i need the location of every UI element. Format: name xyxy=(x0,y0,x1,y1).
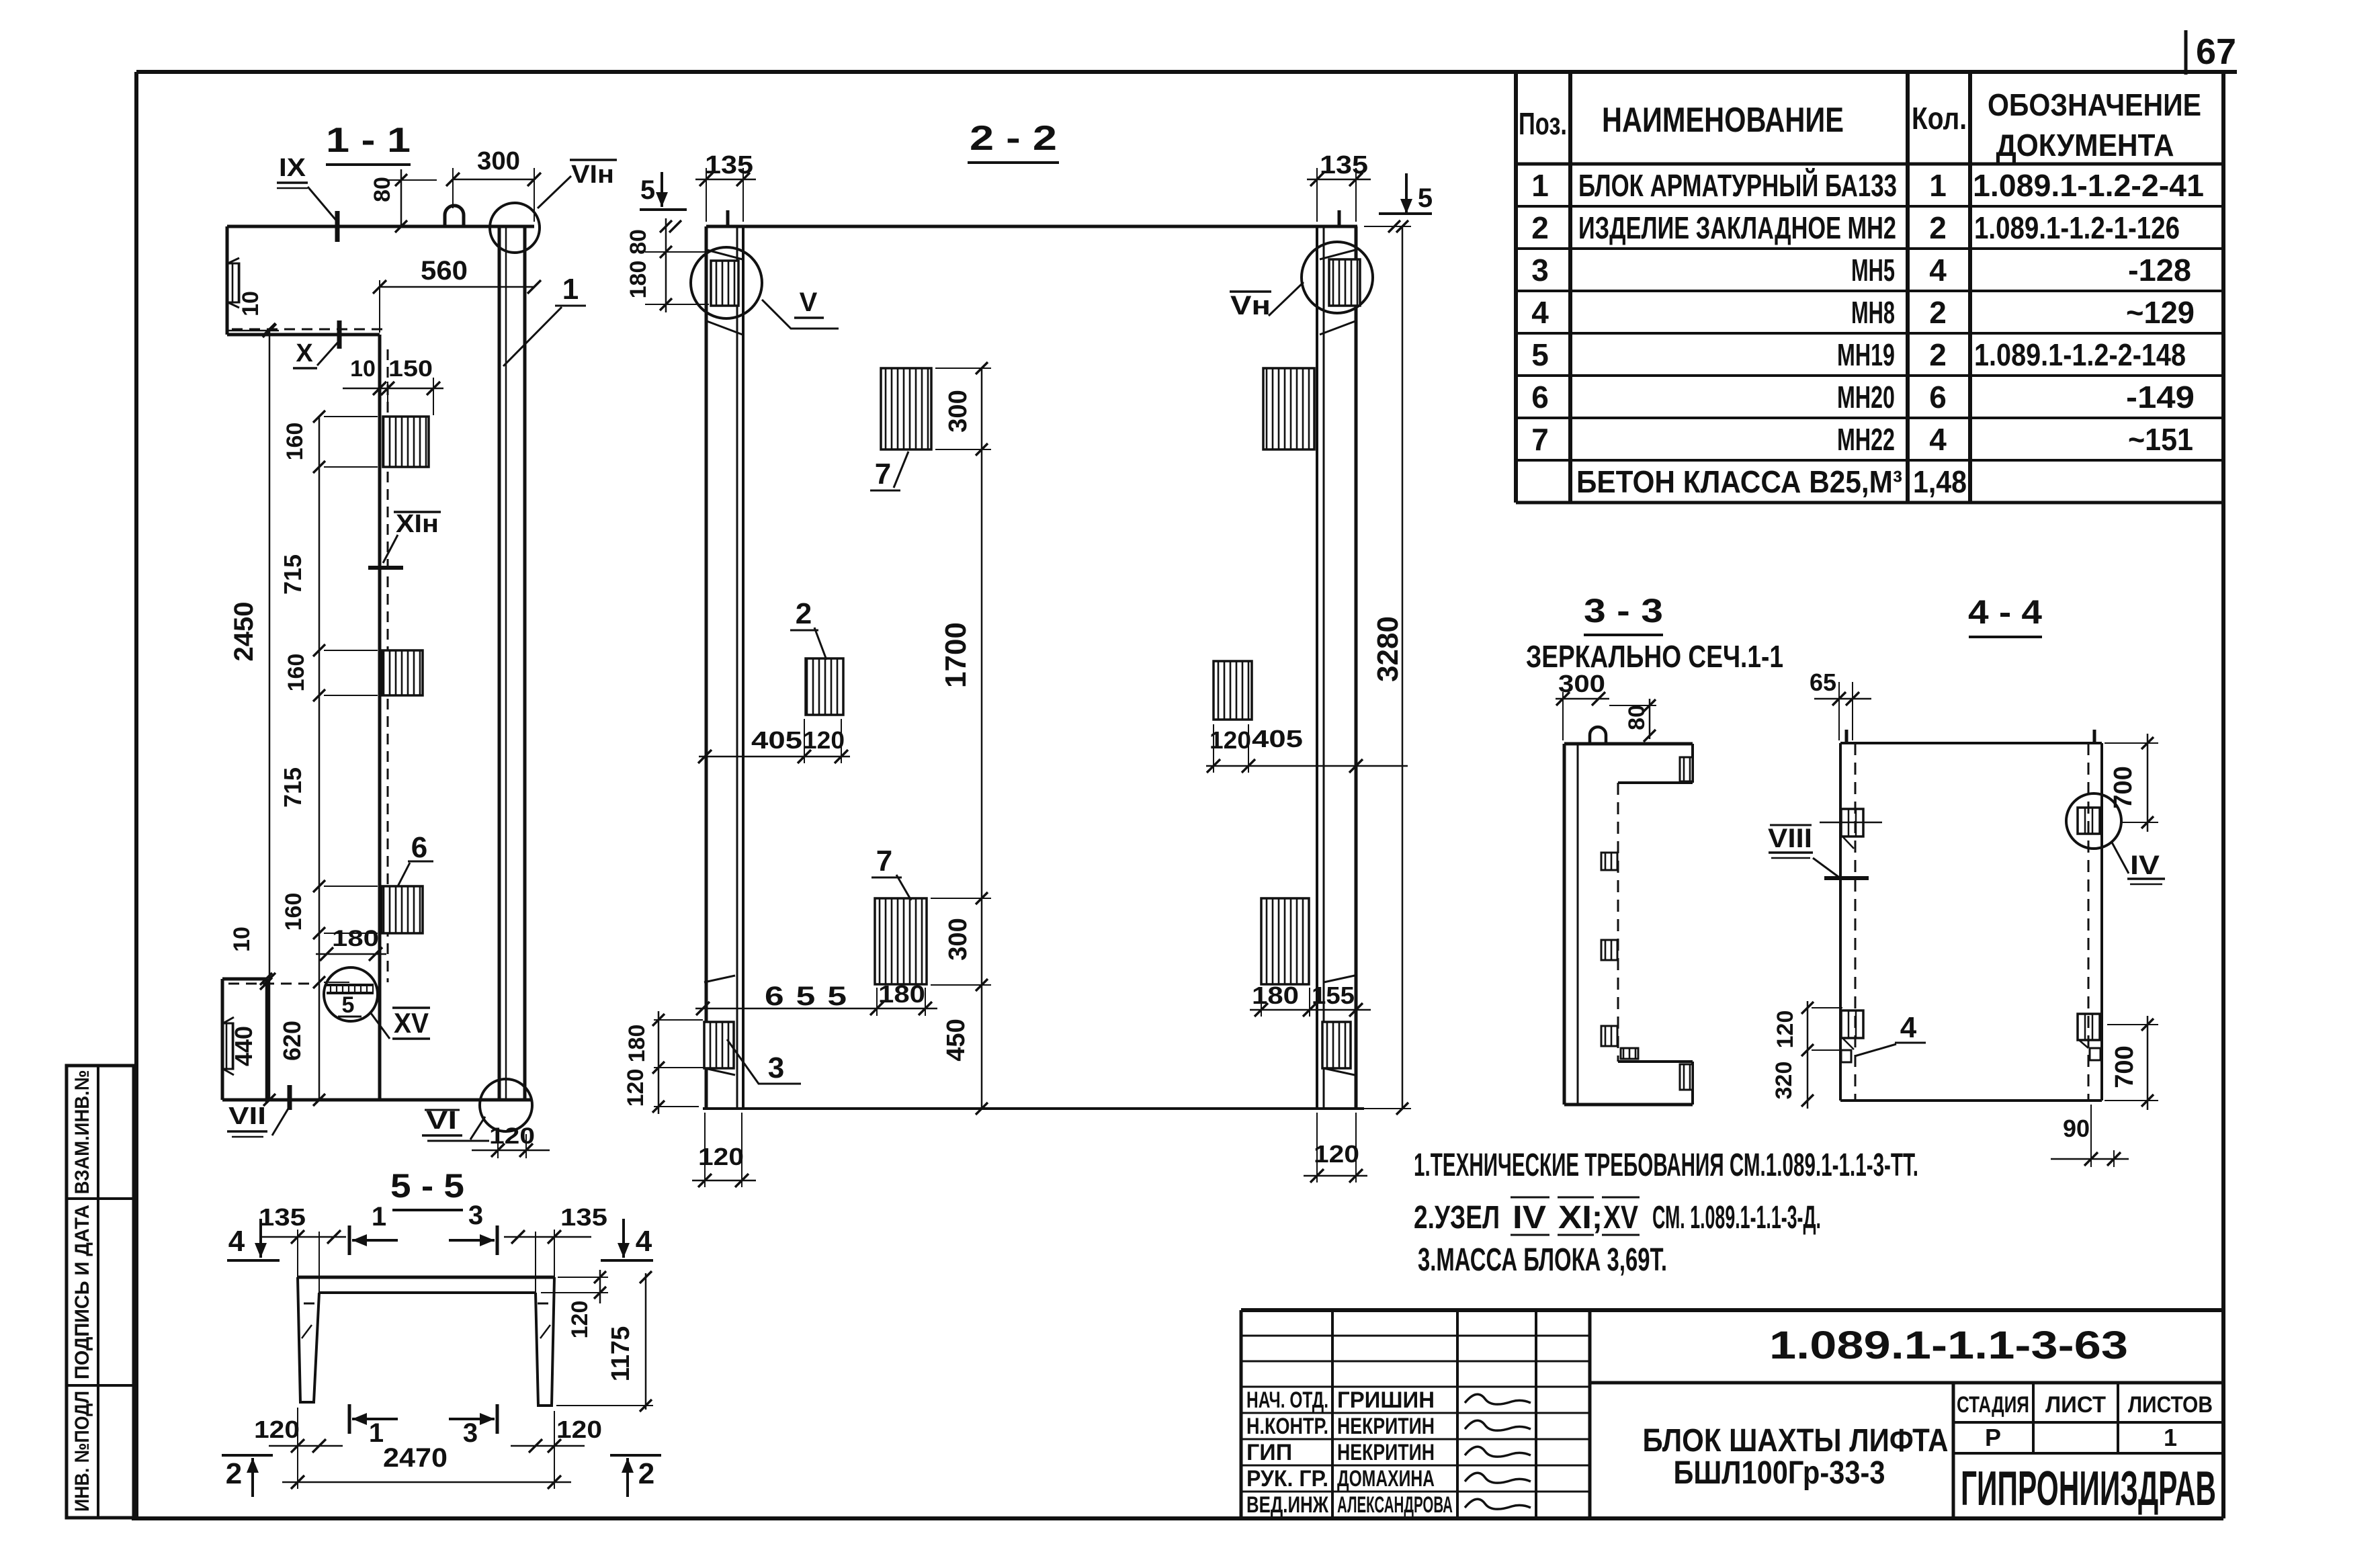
svg-text:4: 4 xyxy=(1929,253,1947,288)
2-2 left wall bottom plate (item 3) xyxy=(704,1022,734,1068)
svg-text:МН8: МН8 xyxy=(1851,295,1895,330)
svg-text:700: 700 xyxy=(2111,1045,2139,1088)
svg-text:БШЛ100Гр-33-3: БШЛ100Гр-33-3 xyxy=(1674,1455,1885,1491)
svg-text:300: 300 xyxy=(944,390,972,432)
svg-text:1.ТЕХНИЧЕСКИЕ ТРЕБОВАНИЯ СМ.1.: 1.ТЕХНИЧЕСКИЕ ТРЕБОВАНИЯ СМ.1.089.1-1.1-… xyxy=(1414,1148,1918,1183)
svg-text:135: 135 xyxy=(259,1203,306,1231)
svg-text:1,48: 1,48 xyxy=(1913,464,1967,499)
svg-text:1: 1 xyxy=(1929,168,1947,203)
4-4 top stubs xyxy=(1845,730,1848,743)
svg-text:1 - 1: 1 - 1 xyxy=(326,121,411,160)
svg-text:3280: 3280 xyxy=(1371,616,1404,682)
1-1 dashed step bottom xyxy=(228,983,316,985)
svg-text:НЕКРИТИН: НЕКРИТИН xyxy=(1337,1440,1435,1465)
svg-text:2450: 2450 xyxy=(229,602,259,662)
svg-text:6: 6 xyxy=(1929,380,1947,415)
page number 67 xyxy=(2184,30,2188,75)
svg-text:~129: ~129 xyxy=(2126,295,2195,330)
svg-text:МН22: МН22 xyxy=(1837,422,1895,457)
1-1 dim 440 xyxy=(265,979,267,1103)
1-1 web wall xyxy=(378,335,382,1100)
svg-text:1175: 1175 xyxy=(607,1326,635,1381)
1-1 embedded plate bottom-left xyxy=(223,1023,233,1069)
1-1 top slab line xyxy=(227,225,534,228)
svg-text:ПОДПИСЬ И ДАТА: ПОДПИСЬ И ДАТА xyxy=(71,1205,93,1379)
3-3 lifting loop xyxy=(1590,727,1606,744)
svg-text:715: 715 xyxy=(279,554,306,595)
svg-text:VIн: VIн xyxy=(571,161,614,189)
svg-text:120: 120 xyxy=(803,726,845,754)
svg-text:1: 1 xyxy=(369,1418,384,1448)
1-1 VI detail circle xyxy=(480,1079,532,1131)
4-4 dashed lines xyxy=(1855,743,1857,1101)
svg-text:67: 67 xyxy=(2196,32,2236,72)
2-2 hatch block 7 lower left xyxy=(875,898,927,984)
2-2 right wall chamfers xyxy=(1320,250,1355,259)
svg-text:ГРИШИН: ГРИШИН xyxy=(1337,1387,1435,1413)
2-2 dims 120/180 far left bottom xyxy=(658,1011,660,1114)
1-1 section tick step xyxy=(337,320,342,349)
svg-text:3: 3 xyxy=(468,1201,483,1230)
svg-text:160: 160 xyxy=(281,893,306,931)
svg-text:155: 155 xyxy=(1312,982,1355,1009)
svg-text:300: 300 xyxy=(1558,670,1605,697)
1-1 bottom piece xyxy=(222,978,267,981)
svg-text:320: 320 xyxy=(1771,1062,1797,1100)
2-2 hatch block right mid xyxy=(1214,661,1252,720)
svg-text:2: 2 xyxy=(1929,337,1947,372)
3-3 embedded plates xyxy=(1680,757,1693,781)
1-1 section tick top xyxy=(335,211,340,242)
svg-text:180: 180 xyxy=(878,980,925,1008)
svg-text:80: 80 xyxy=(370,177,395,202)
2-2 left wall chamfers xyxy=(707,250,742,259)
svg-text:ЗЕРКАЛЬНО СЕЧ.1-1: ЗЕРКАЛЬНО СЕЧ.1-1 xyxy=(1526,639,1783,674)
svg-text:АЛЕКСАНДРОВА: АЛЕКСАНДРОВА xyxy=(1337,1492,1453,1518)
svg-text:65: 65 xyxy=(1810,669,1836,696)
svg-text:7: 7 xyxy=(1531,422,1549,457)
1-1 embedded plate top-left xyxy=(228,263,239,302)
svg-text:СТАДИЯ: СТАДИЯ xyxy=(1957,1392,2029,1418)
svg-text:1.089.1-1.2-2-41: 1.089.1-1.2-2-41 xyxy=(1973,168,2204,203)
1-1 right wall lines xyxy=(498,226,501,1100)
4-4 embedded plates right xyxy=(2078,808,2100,834)
1-1 VIn detail circle xyxy=(490,203,540,253)
2-2 V detail circle xyxy=(691,247,762,318)
4-4 tick on strip xyxy=(1824,876,1869,880)
3-3 dashed inner line xyxy=(1617,783,1619,1062)
svg-text:БЕТОН КЛАССА В25,М³: БЕТОН КЛАССА В25,М³ xyxy=(1576,464,1902,499)
2-2 right wall xyxy=(1316,226,1318,1109)
svg-text:V: V xyxy=(800,288,818,317)
svg-text:ЛИСТ: ЛИСТ xyxy=(2045,1392,2106,1418)
1-1 inner dim line 160/715 xyxy=(318,417,321,1100)
2-2 dim 3280 xyxy=(1402,226,1404,1109)
svg-text:120: 120 xyxy=(567,1301,593,1339)
2-2 bottom line xyxy=(703,1107,1364,1110)
2-2 central dim line 300/1700/300/450 xyxy=(981,368,983,1109)
svg-text:440: 440 xyxy=(230,1026,257,1066)
signature table xyxy=(1240,1310,1243,1518)
4-4 outline xyxy=(1840,742,2102,744)
svg-text:IV: IV xyxy=(2130,851,2160,880)
svg-text:ВЕД.ИНЖ: ВЕД.ИНЖ xyxy=(1246,1492,1328,1518)
svg-text:МН19: МН19 xyxy=(1837,337,1895,372)
svg-text:ИЗДЕЛИЕ ЗАКЛАДНОЕ МН2: ИЗДЕЛИЕ ЗАКЛАДНОЕ МН2 xyxy=(1578,210,1896,245)
svg-text:1: 1 xyxy=(372,1202,386,1232)
svg-text:XIн: XIн xyxy=(396,510,439,538)
svg-text:Р: Р xyxy=(1985,1424,2001,1451)
svg-text:-128: -128 xyxy=(2128,253,2191,288)
4-4 embedded plates left xyxy=(1841,809,1863,836)
svg-text:5: 5 xyxy=(1531,337,1549,372)
svg-text:180: 180 xyxy=(626,261,651,299)
1-1 dim 80 top xyxy=(400,169,402,226)
2-2 hatch block 7 upper left xyxy=(881,368,931,449)
svg-text:120: 120 xyxy=(556,1416,602,1443)
2-2 left wall xyxy=(705,226,708,1109)
svg-text:БЛОК АРМАТУРНЫЙ БА133: БЛОК АРМАТУРНЫЙ БА133 xyxy=(1578,168,1897,203)
svg-text:МН5: МН5 xyxy=(1851,253,1895,288)
svg-text:6: 6 xyxy=(1531,380,1549,415)
svg-text:ДОМАХИНА: ДОМАХИНА xyxy=(1337,1466,1435,1492)
1-1 left edge xyxy=(226,226,229,335)
svg-text:3: 3 xyxy=(768,1051,784,1084)
svg-text:4: 4 xyxy=(228,1225,245,1258)
svg-text:5: 5 xyxy=(640,175,655,205)
svg-text:1.089.1-1.2-1-126: 1.089.1-1.2-1-126 xyxy=(1974,210,2180,245)
svg-text:160: 160 xyxy=(284,654,309,692)
svg-text:4: 4 xyxy=(1900,1011,1917,1044)
svg-text:3.МАССА БЛОКА 3,69Т.: 3.МАССА БЛОКА 3,69Т. xyxy=(1418,1242,1667,1278)
2-2 Vn detail circle xyxy=(1302,242,1373,313)
parts table frame xyxy=(1514,72,1518,503)
svg-text:2: 2 xyxy=(226,1457,242,1490)
svg-text:180: 180 xyxy=(624,1025,650,1063)
1-1 XV detail circle xyxy=(324,967,378,1021)
1-1 bottom line xyxy=(222,1099,531,1102)
svg-text:X: X xyxy=(296,339,313,368)
svg-text:10: 10 xyxy=(229,927,255,952)
svg-text:5: 5 xyxy=(1418,183,1433,213)
svg-text:ВЗАМ.ИНВ.№: ВЗАМ.ИНВ.№ xyxy=(71,1070,93,1195)
4-4 IV detail circle xyxy=(2066,793,2121,849)
svg-text:180: 180 xyxy=(1252,982,1299,1009)
svg-text:МН20: МН20 xyxy=(1837,380,1895,415)
2-2 top slab xyxy=(706,225,1357,228)
svg-text:7: 7 xyxy=(876,845,892,877)
5-5 leg marks xyxy=(304,1303,314,1305)
svg-text:450: 450 xyxy=(942,1019,970,1061)
1-1 lifting loop xyxy=(445,206,464,226)
svg-text:2.УЗЕЛ: 2.УЗЕЛ xyxy=(1414,1200,1500,1236)
svg-text:2: 2 xyxy=(1531,210,1549,245)
svg-text:4 - 4: 4 - 4 xyxy=(1968,593,2042,631)
2-2 dims 80/180 left xyxy=(665,218,667,312)
svg-text:2: 2 xyxy=(1929,295,1947,330)
svg-text:ИНВ. №ПОДЛ: ИНВ. №ПОДЛ xyxy=(71,1391,93,1512)
svg-text:150: 150 xyxy=(388,356,433,382)
page border frame xyxy=(136,70,2237,74)
svg-text:7: 7 xyxy=(875,458,891,490)
1-1 hatch block A xyxy=(383,417,429,467)
svg-text:405: 405 xyxy=(751,726,802,754)
svg-text:IV: IV xyxy=(1513,1200,1546,1236)
svg-text:-149: -149 xyxy=(2126,380,2195,415)
svg-text:120: 120 xyxy=(254,1416,300,1443)
svg-text:300: 300 xyxy=(944,918,972,960)
2-2 right wall bottom plate xyxy=(1322,1022,1351,1068)
svg-text:120: 120 xyxy=(1314,1140,1359,1168)
svg-text:VIII: VIII xyxy=(1768,824,1812,853)
3-3 profile outline xyxy=(1564,742,1693,746)
svg-text:ДОКУМЕНТА: ДОКУМЕНТА xyxy=(1996,128,2174,163)
svg-text:10: 10 xyxy=(350,356,376,382)
svg-text:300: 300 xyxy=(477,147,520,175)
1-1 dim 300 top xyxy=(453,179,534,181)
svg-text:Vн: Vн xyxy=(1230,291,1271,320)
svg-text:1.089.1-1.1-3-63: 1.089.1-1.1-3-63 xyxy=(1769,1324,2128,1367)
svg-text:~151: ~151 xyxy=(2128,422,2193,457)
1-1 tick at bottom xyxy=(288,1085,292,1110)
svg-text:120: 120 xyxy=(1773,1010,1798,1049)
svg-text:НЕКРИТИН: НЕКРИТИН xyxy=(1337,1414,1435,1439)
sidebar frame xyxy=(67,1066,134,1518)
svg-text:НАИМЕНОВАНИЕ: НАИМЕНОВАНИЕ xyxy=(1602,101,1844,140)
svg-text:3: 3 xyxy=(463,1418,478,1448)
svg-text:XI: XI xyxy=(1558,1200,1592,1236)
svg-text:Поз.: Поз. xyxy=(1519,106,1567,141)
svg-text:5 - 5: 5 - 5 xyxy=(390,1167,464,1205)
svg-text:1700: 1700 xyxy=(939,622,972,688)
4-4 dim 700 bottom xyxy=(2147,1016,2149,1110)
svg-text:ГИПРОНИИЗДРАВ: ГИПРОНИИЗДРАВ xyxy=(1961,1462,2216,1516)
svg-text:120: 120 xyxy=(623,1069,648,1107)
svg-text:2: 2 xyxy=(638,1457,654,1490)
2-2 hatch block 7 lower right xyxy=(1261,898,1309,984)
svg-text:4: 4 xyxy=(1929,422,1947,457)
svg-text:120: 120 xyxy=(489,1123,535,1149)
1-1 step lines xyxy=(232,329,384,331)
svg-text:XV: XV xyxy=(394,1007,429,1039)
svg-text:3: 3 xyxy=(1531,253,1549,288)
svg-text:Кол.: Кол. xyxy=(1912,101,1967,136)
4-4 thin line through VIII plate xyxy=(1820,822,1882,824)
2-2 lifting pins xyxy=(726,210,730,226)
1-1 dim 560 xyxy=(380,286,534,288)
svg-text:НАЧ. ОТД.: НАЧ. ОТД. xyxy=(1246,1387,1328,1413)
svg-text:6: 6 xyxy=(411,831,427,864)
svg-text:1: 1 xyxy=(562,273,579,306)
svg-text:80: 80 xyxy=(626,229,651,255)
svg-text:160: 160 xyxy=(282,423,308,461)
svg-text:135: 135 xyxy=(560,1203,607,1231)
svg-text:;: ; xyxy=(1592,1200,1603,1236)
svg-text:405: 405 xyxy=(1252,725,1303,752)
svg-text:180: 180 xyxy=(332,926,379,951)
4-4 dim 120/320 xyxy=(1807,1001,1809,1109)
svg-text:Н.КОНТР.: Н.КОНТР. xyxy=(1246,1414,1328,1439)
svg-text:4: 4 xyxy=(636,1225,652,1258)
svg-text:120: 120 xyxy=(1209,726,1251,754)
svg-text:4: 4 xyxy=(1531,295,1549,330)
svg-text:655: 655 xyxy=(765,982,859,1011)
svg-text:2470: 2470 xyxy=(383,1443,448,1473)
svg-text:1.089.1-1.2-2-148: 1.089.1-1.2-2-148 xyxy=(1974,337,2186,372)
svg-text:10: 10 xyxy=(238,291,263,316)
title block top line xyxy=(1241,1308,2223,1312)
svg-text:СМ. 1.089.1-1.1-3-Д.: СМ. 1.089.1-1.1-3-Д. xyxy=(1652,1200,1821,1236)
stage table xyxy=(1953,1421,2223,1424)
1-1 hatch block C (item 6) xyxy=(382,886,423,933)
svg-text:ОБОЗНАЧЕНИЕ: ОБОЗНАЧЕНИЕ xyxy=(1988,87,2201,122)
svg-text:2: 2 xyxy=(1929,210,1947,245)
5-5 channel outline xyxy=(298,1276,554,1279)
1-1 dim 2450 line xyxy=(269,331,271,1100)
svg-text:IX: IX xyxy=(279,154,306,182)
svg-text:1: 1 xyxy=(1531,168,1549,203)
svg-text:1: 1 xyxy=(2164,1424,2177,1451)
svg-text:XV: XV xyxy=(1603,1200,1638,1236)
svg-text:РУК. ГР.: РУК. ГР. xyxy=(1246,1466,1328,1492)
svg-text:715: 715 xyxy=(279,767,306,808)
2-2 hatch block 7 upper right xyxy=(1263,368,1314,449)
1-1 hatch block B xyxy=(382,650,423,695)
svg-text:3 - 3: 3 - 3 xyxy=(1584,592,1663,630)
4-4 dim 700 top xyxy=(2147,734,2149,832)
svg-text:VII: VII xyxy=(228,1102,266,1129)
svg-text:ГИП: ГИП xyxy=(1246,1440,1292,1465)
svg-text:2: 2 xyxy=(796,597,812,630)
svg-text:БЛОК ШАХТЫ ЛИФТА: БЛОК ШАХТЫ ЛИФТА xyxy=(1643,1423,1949,1459)
svg-text:700: 700 xyxy=(2109,766,2137,808)
svg-text:ЛИСТОВ: ЛИСТОВ xyxy=(2128,1392,2213,1418)
svg-text:560: 560 xyxy=(421,256,468,286)
svg-text:90: 90 xyxy=(2063,1115,2090,1142)
svg-text:620: 620 xyxy=(278,1021,306,1061)
svg-text:5: 5 xyxy=(342,992,355,1018)
svg-text:2 - 2: 2 - 2 xyxy=(970,119,1057,158)
2-2 hatch block 2 left xyxy=(806,658,843,715)
